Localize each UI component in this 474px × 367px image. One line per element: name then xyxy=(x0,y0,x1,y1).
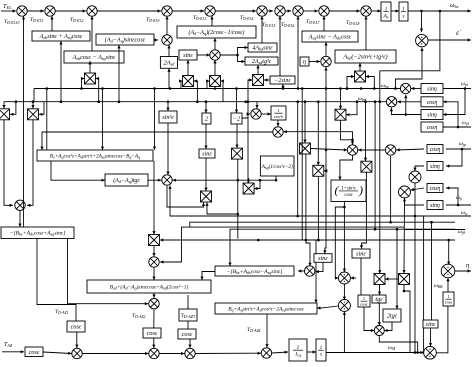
gain block sin(eps) mid xyxy=(179,50,197,60)
wire cos az1 to C29 xyxy=(75,332,78,348)
multiplier C22b xyxy=(338,300,350,312)
wire B25 up to C1 xyxy=(22,16,25,227)
wire C20 to B25 xyxy=(18,211,21,228)
omega line y222 xyxy=(190,221,455,227)
svg-text:Be+Aqcos²ε+Adsin²ε+2Asdsinεcos: Be+Aqcos²ε+Adsin²ε+2Asdsinεcosε−Bq−Aq xyxy=(50,153,140,159)
multiplier C33 xyxy=(424,347,437,360)
svg-text:cosε: cosε xyxy=(344,193,352,198)
square multiplier S5 xyxy=(210,76,221,87)
wire H2 to S4 right xyxy=(194,79,198,101)
svg-text:Bq+Aqsin²ε+Adcos²ε−2Asdsinεcos: Bq+Aqsin²ε+Adcos²ε−2Asdsinεcosε xyxy=(228,306,304,312)
svg-text:tgε: tgε xyxy=(375,296,383,303)
wire eta-mult to box5 xyxy=(324,42,327,56)
svg-text:TD-EL4: TD-EL4 xyxy=(240,15,254,21)
wire C1-C2 xyxy=(27,9,44,12)
wire H1 dot to S3 left xyxy=(81,77,84,89)
gain block -2 xyxy=(231,113,242,124)
wire 1/Jeq to 1/s2 xyxy=(307,350,316,353)
wire box2 to C3 xyxy=(90,16,93,51)
wire H2 to S5 right xyxy=(221,79,224,101)
svg-text:−2sinε: −2sinε xyxy=(274,78,291,84)
gain block sin(eps) right xyxy=(423,320,438,328)
gain block (1+sin2)/cos xyxy=(331,180,366,202)
svg-text:cosη: cosη xyxy=(430,147,441,153)
wire long vertical x379.8 to S16 xyxy=(378,71,381,274)
wire H1 to -2sin xyxy=(281,84,284,89)
gain block sin2 xyxy=(159,111,177,123)
svg-text:TD-AZ4: TD-AZ4 xyxy=(247,327,261,333)
wire C5-C6 xyxy=(215,9,256,12)
wire box4 to C5 xyxy=(210,16,213,26)
wire arrow into S6 left xyxy=(248,78,253,81)
wire H1 left end down to S2 xyxy=(31,102,34,109)
wire 2tg to C35 xyxy=(384,322,392,332)
integrator 1/s xyxy=(399,2,408,21)
wire H1 down to S18 xyxy=(339,87,342,109)
wire fork to 2Asdtg2 xyxy=(238,55,246,63)
svg-text:η: η xyxy=(303,59,306,66)
svg-text:ωjt: ωjt xyxy=(456,195,463,201)
wire 1/cos to C35 xyxy=(364,307,374,332)
wire C3-C4 xyxy=(97,9,161,12)
wire cos az2 to C30 xyxy=(152,338,155,348)
gain block 1/cos2eps xyxy=(271,106,286,120)
wire S11 down to B53 xyxy=(360,172,367,249)
wire sin-mid to C12 xyxy=(197,53,210,56)
wire B27 down to C19b xyxy=(152,293,155,298)
bus H2 main xyxy=(4,100,386,103)
svg-text:2Asd: 2Asd xyxy=(164,60,176,67)
wire C19b down to cos az2 xyxy=(153,309,155,328)
wire sinebox to S13 xyxy=(204,158,207,191)
label box T_D-AZ3 xyxy=(179,309,197,321)
gain block sin(eps) B52 xyxy=(314,254,332,263)
wire sin-eta2 branch up to C25 bottom xyxy=(404,95,407,115)
wire omega_pl to cos1 xyxy=(443,100,458,127)
summing node T_D-EL3 xyxy=(205,6,215,16)
wire into C22b bottom xyxy=(343,312,346,353)
svg-text:TAZ: TAZ xyxy=(4,342,13,348)
multiplier T_D-AZ2 node xyxy=(149,299,159,309)
svg-text:2tgε: 2tgε xyxy=(387,313,398,320)
square multiplier S18 xyxy=(335,109,346,120)
summing node T_D-EL7 xyxy=(319,6,329,16)
wire C18 down to S13 bottom xyxy=(167,185,205,207)
svg-text:TD-EL6: TD-EL6 xyxy=(281,22,295,28)
multiplier C15 xyxy=(251,109,261,119)
multiplier eps-dot xyxy=(416,34,428,46)
wire C12 fork to 4Abd and 2Asdtg2 xyxy=(220,46,248,56)
gain block Asq*sin-Ads*cos xyxy=(302,31,358,42)
wire -2sin to S6 xyxy=(264,78,270,81)
svg-text:cosε: cosε xyxy=(182,331,193,338)
multiplier C32 xyxy=(261,348,271,358)
svg-text:sinε: sinε xyxy=(426,321,436,328)
wire B26 to B27 xyxy=(200,272,215,281)
svg-text:(Ad−Aq)sinεcosε: (Ad−Aq)sinεcosε xyxy=(105,37,146,44)
wire sin3 to C27 xyxy=(413,166,424,171)
gain block 1/cos right xyxy=(443,292,454,306)
svg-text:cosε: cosε xyxy=(360,302,368,307)
wire S4 to sin-mid xyxy=(186,60,189,76)
wire S9 to C23 xyxy=(311,148,348,151)
wire omega_jp input xyxy=(446,148,471,151)
multiplier C28 xyxy=(399,186,411,198)
wire S16 to tg xyxy=(378,285,381,296)
svg-text:sinη: sinη xyxy=(427,112,437,118)
wire S3 up to box2 xyxy=(88,61,91,73)
multiplier C35 xyxy=(374,326,384,336)
gain block sin(eta) 1 xyxy=(421,84,443,94)
wire C9-C10 xyxy=(329,9,360,12)
svg-text:sinη: sinη xyxy=(427,86,437,92)
wire B21 down to C22a top xyxy=(343,202,346,273)
svg-text:cosε: cosε xyxy=(29,349,40,356)
wire H2 down to S11 xyxy=(364,102,367,162)
wire C34 to eta out xyxy=(455,269,471,272)
gain block cos(eps) az-in xyxy=(25,347,43,357)
wire S2 down to C20 xyxy=(27,120,33,207)
wire S13 bottom chain xyxy=(235,239,237,241)
svg-text:TD-EL7: TD-EL7 xyxy=(306,19,321,25)
wire omega_pt input xyxy=(443,87,471,90)
square multiplier S9 xyxy=(300,143,311,154)
svg-text:cos²ε: cos²ε xyxy=(274,114,284,119)
wire sin4 line xyxy=(403,198,424,205)
multiplier C17 xyxy=(273,127,283,137)
wire B21 down to C22a left xyxy=(335,207,344,280)
square multiplier S13 xyxy=(201,191,212,202)
svg-text:(Ad−Aq)(2cosε−1/cosε): (Ad−Aq)(2cosε−1/cosε) xyxy=(188,29,244,36)
gain block cos(eta) 2 xyxy=(421,122,443,132)
wire H2 down to y229 xyxy=(374,102,376,230)
wire C6-C7 xyxy=(267,9,273,12)
summing node T_D-EL4 xyxy=(257,6,267,16)
wire C23 down to B21 xyxy=(338,155,352,180)
svg-text:sinε: sinε xyxy=(183,52,193,59)
long gain block Be+Aq*cos2+Ad*sin2+2Asd... xyxy=(37,150,153,161)
wire B25 down to cos az1 xyxy=(37,239,76,322)
wire eta-mult H1 tap down to B52 xyxy=(323,89,327,254)
svg-text:Adscosε − Asqsinε: Adscosε − Asqsinε xyxy=(72,54,116,61)
wire B53 to 1/cos xyxy=(360,258,362,295)
square multiplier S7 xyxy=(355,71,366,82)
svg-text:sinη: sinη xyxy=(430,203,440,209)
svg-text:sin²ε: sin²ε xyxy=(162,114,174,121)
gain block Ads*sin+Asq*cos xyxy=(32,31,90,41)
wire tg to C35 xyxy=(378,303,381,326)
multiplier C25 xyxy=(400,83,410,93)
svg-text:ωbθ: ωbθ xyxy=(358,96,366,102)
wire H1 to eta-mult xyxy=(324,67,327,89)
svg-text:cosη: cosη xyxy=(427,100,438,106)
square multiplier S4 xyxy=(183,76,194,87)
wire sin1 to C25 xyxy=(411,87,421,90)
summing node T_D-EL2 xyxy=(87,6,97,16)
omega_j-eps line xyxy=(168,186,415,217)
square multiplier S1 xyxy=(0,109,10,120)
wire cos to C29 xyxy=(43,352,72,355)
wire H2 up to box3 xyxy=(117,45,120,102)
wire into C22a right xyxy=(350,276,356,279)
wire omega feedback vertical x423 xyxy=(423,216,425,353)
wire H2 bend into S18 right xyxy=(346,100,358,116)
square multiplier S11 xyxy=(361,161,372,172)
wire down to T_D-AZ3 xyxy=(187,295,189,309)
wire C2-C3 xyxy=(55,9,86,12)
wire y222 down to sin-right xyxy=(431,222,433,320)
wire sin-eta2 to C26 bottom xyxy=(390,108,421,116)
wire branch into S10 right xyxy=(324,169,327,172)
wire C27 down to omega bus xyxy=(414,183,417,353)
vertical bundle x297.7 xyxy=(296,100,299,217)
multiplier C34 xyxy=(441,264,455,278)
square multiplier S14b xyxy=(149,235,160,246)
wire y240 arrow into S14b xyxy=(160,238,165,241)
wire box2 to sinebox xyxy=(204,124,207,149)
svg-text:TEL: TEL xyxy=(3,3,12,10)
gain block 2Asd xyxy=(160,57,177,69)
svg-text:Bsd+(Ad−Aq)sinεcosε+Asd(2cos²−: Bsd+(Ad−Aq)sinεcosε+Asd(2cos²−1) xyxy=(110,283,189,290)
omega_j-theta line xyxy=(228,228,455,266)
gain block cos(eta) 4 xyxy=(427,184,443,193)
wire B52 into C21 xyxy=(315,262,323,273)
wire eps-dot output xyxy=(429,38,472,41)
wire C30 to C31 xyxy=(159,352,184,355)
wire C31 to C32 xyxy=(195,352,261,355)
square multiplier S3 xyxy=(85,73,96,84)
svg-text:Asq(1/cos²ε−2): Asq(1/cos²ε−2) xyxy=(261,163,293,170)
wire C4-C5 xyxy=(172,9,204,12)
svg-text:sinη: sinη xyxy=(430,164,440,170)
wire box6 to C10 xyxy=(364,16,367,50)
svg-text:1: 1 xyxy=(277,108,279,113)
gain block sin(eta) 3 xyxy=(427,162,443,171)
wire S7 to box6 xyxy=(358,63,361,71)
svg-text:Abd(−2sin²ε+tg²ε): Abd(−2sin²ε+tg²ε) xyxy=(342,54,387,61)
wire cos3 to C24 line xyxy=(396,148,424,151)
gain block -[Be+Ads*cos+Asq*sin] xyxy=(1,227,74,239)
wire feedback y79 into eps-dot mult xyxy=(394,48,423,90)
wire S17 to S16 xyxy=(385,277,399,280)
wire B23 down to B24 xyxy=(51,161,105,182)
wire vertical x248 S6-S12 xyxy=(247,80,253,183)
svg-text:Adssinε + Asqcosε: Adssinε + Asqcosε xyxy=(39,33,83,40)
summing node T_D-EL9 xyxy=(162,6,172,16)
gain block Abd(-2sin2+tg2) xyxy=(335,50,396,63)
summing node T_D-EL10 xyxy=(17,6,27,16)
wire B28 down to C32 xyxy=(265,314,268,348)
multiplier C27 xyxy=(409,171,421,183)
gain block 4Abd*sin xyxy=(248,43,277,52)
square multiplier S12 xyxy=(243,183,254,194)
wire S18 down to C23 xyxy=(341,120,355,145)
wire B25 down to C19b xyxy=(68,239,149,306)
wire H1 to box -2 xyxy=(235,89,238,114)
wire B23 to S14 chain xyxy=(152,161,155,235)
gain block (Ad-Aq)sincos xyxy=(96,34,154,45)
svg-text:sinε: sinε xyxy=(202,151,212,158)
wire to S13 bottom xyxy=(205,203,237,215)
wire H2 to box 2 xyxy=(204,102,207,113)
square multiplier S8 xyxy=(232,148,243,159)
summing node T_D-EL6 xyxy=(293,6,303,16)
wire S8 down xyxy=(237,159,240,239)
multiplier C26 xyxy=(386,97,396,107)
svg-text:ωjp: ωjp xyxy=(459,141,466,147)
svg-text:1: 1 xyxy=(363,296,365,301)
svg-text:Ae: Ae xyxy=(382,13,388,19)
wire box1 to C2 xyxy=(50,16,53,31)
wire C24 to C23 xyxy=(358,148,385,151)
wire into S7 left xyxy=(346,75,355,90)
svg-text:s: s xyxy=(320,352,322,358)
wire C8-C9 xyxy=(303,9,318,12)
square multiplier S10 xyxy=(313,165,324,176)
gain block sin(eps) mid2 xyxy=(199,149,215,158)
multiplier C24 xyxy=(385,145,395,155)
wire omega_jt to cos4 xyxy=(446,186,458,205)
gain block cos(eps) az2 xyxy=(143,328,161,338)
wire box5 to C9 xyxy=(322,16,325,31)
wire omega_jt input xyxy=(446,204,471,207)
multiplier C22a xyxy=(338,272,350,284)
svg-text:ωBK: ωBK xyxy=(434,283,443,289)
wire S12 top arrow xyxy=(247,178,250,183)
svg-text:TD-EL9: TD-EL9 xyxy=(146,17,160,23)
gain block 1/Ae xyxy=(381,2,391,21)
wire y240 to C34 xyxy=(447,240,450,265)
wire into S7 right xyxy=(366,75,376,90)
svg-text:ωjθ: ωjθ xyxy=(458,229,465,235)
wire 1/s to omega_be output xyxy=(408,9,471,12)
wire T_D-AZ3 to cos az3 xyxy=(187,321,189,329)
gain block cos(eps) az3 xyxy=(178,329,196,339)
svg-text:sinε: sinε xyxy=(356,251,366,258)
wire y229 down to 2tg xyxy=(395,229,398,309)
wire feedback y70 up to omega_be line xyxy=(380,11,440,71)
gain block sin(eps) B53 xyxy=(352,249,370,258)
omega line y240 xyxy=(165,239,455,242)
wire 1/Ae to 1/s xyxy=(391,9,399,12)
wire mult C12 to box4 xyxy=(213,38,216,50)
wire cos1 to C26 xyxy=(397,100,421,103)
svg-text:−[Bbε+Adscosε−Asqsinε]: −[Bbε+Adscosε−Asqsinε] xyxy=(227,269,283,275)
vertical bundle x302 xyxy=(301,87,304,240)
svg-text:sinε: sinε xyxy=(318,255,328,262)
bus H1 main xyxy=(34,87,400,90)
long gain block Bsd+(Ad-Aq)sincos+Asd(2cos2-1) xyxy=(87,280,211,293)
wire sin to C33 xyxy=(429,328,432,347)
wire H2 dot to S3 right xyxy=(96,77,99,102)
svg-text:TD-EL1: TD-EL1 xyxy=(30,17,44,23)
gain block (Ad-Aq)(2cos-1/cos) xyxy=(177,26,256,38)
gain block 1/Jeq xyxy=(289,339,307,361)
gain block 1/cos bottom xyxy=(358,295,370,307)
wire 1/cos2 to C17 xyxy=(276,120,279,127)
wire S1 down to C20 xyxy=(4,120,13,207)
wire sin2 to C18 xyxy=(166,123,169,175)
summing node T_D-EL8 xyxy=(361,6,371,16)
wire H1 to S4 left xyxy=(179,79,182,88)
wire B20 down to C18 xyxy=(173,176,278,182)
svg-text:ωjε: ωjε xyxy=(461,210,468,216)
multiplier eta xyxy=(321,56,331,66)
wire C35 out to bus xyxy=(379,336,417,353)
wire C17 out left xyxy=(40,132,272,150)
wire H1 to S5 left xyxy=(206,79,209,88)
svg-text:ωbη: ωbη xyxy=(381,83,389,89)
multiplier C29 xyxy=(72,348,82,358)
svg-text:−2: −2 xyxy=(233,116,240,123)
gain block sin(eta) 4 xyxy=(427,201,443,210)
wire H2 to S9 xyxy=(303,102,306,143)
omega_M bus xyxy=(326,351,425,354)
gain block eta xyxy=(300,57,309,66)
multiplier before T_D-EL9 xyxy=(162,35,172,45)
svg-text:1: 1 xyxy=(447,294,449,299)
wire S9 down to C21 xyxy=(305,154,312,266)
svg-text:Asqsinε − Adscosε: Asqsinε − Adscosε xyxy=(308,34,352,41)
wire C10 to 1/Ae xyxy=(371,9,381,12)
wire omega_pl input xyxy=(443,126,471,129)
wire H2 left end down to S1 xyxy=(2,102,5,109)
wire C33 out xyxy=(436,306,448,353)
svg-text:−[Bbε+Adscosε+Asqsinε]: −[Bbε+Adscosε+Asqsinε] xyxy=(10,231,66,237)
wire omega_pt to sin2 xyxy=(443,89,465,117)
wire S6 to 2Asdtg2 xyxy=(256,65,259,75)
wire C21 to B26 xyxy=(298,269,305,272)
omega_j-theta right seg xyxy=(405,229,466,231)
wire S17 down xyxy=(403,285,410,353)
svg-text:cosε: cosε xyxy=(147,330,158,337)
wire B24 to C18 xyxy=(148,179,161,182)
multiplier under box4 xyxy=(210,50,220,60)
wire cos4 to C28 xyxy=(411,188,425,191)
multiplier C21 xyxy=(305,266,315,276)
wire -2 to C15 xyxy=(242,112,250,118)
wire C28 down to S17 xyxy=(402,198,405,274)
wire -2sin up to C7 xyxy=(278,16,281,76)
horizontal bus H1 xyxy=(33,89,35,102)
wire C22b to B28 xyxy=(317,306,338,310)
svg-text:cosε: cosε xyxy=(71,324,82,331)
wire C22a to C22b xyxy=(343,284,346,300)
wire H1 down to B23 mid xyxy=(101,87,104,150)
wire T_EL to C1 xyxy=(1,9,16,12)
wire C32 to 1/Jeq xyxy=(272,351,288,354)
wire 1/cos to C34 xyxy=(446,278,449,292)
wire T_AZ to cos box xyxy=(2,350,24,353)
integrator 1/s bottom xyxy=(316,339,326,361)
gain block (Ad-Aq)tg xyxy=(105,174,148,186)
wire H2 to C15 xyxy=(255,102,258,109)
wire H2 to S10 xyxy=(317,102,320,166)
svg-text:(Ad−Aq)tgε: (Ad−Aq)tgε xyxy=(113,177,140,184)
gain block tg(eps) xyxy=(372,295,386,303)
svg-text:TD-EL10: TD-EL10 xyxy=(4,19,19,25)
square multiplier S6 xyxy=(253,75,264,86)
multiplier C18 xyxy=(162,175,172,185)
svg-text:): ) xyxy=(358,183,363,197)
wire C7-C8 xyxy=(285,9,291,12)
wire H1 to 2Asd xyxy=(167,68,170,88)
wire C19 down to B27 xyxy=(152,267,155,280)
wire H2 dot to S2 right xyxy=(39,102,44,116)
svg-text:cosε: cosε xyxy=(445,299,453,304)
svg-text:ωpt: ωpt xyxy=(461,81,469,87)
wire H1 up to C8 xyxy=(296,16,299,89)
